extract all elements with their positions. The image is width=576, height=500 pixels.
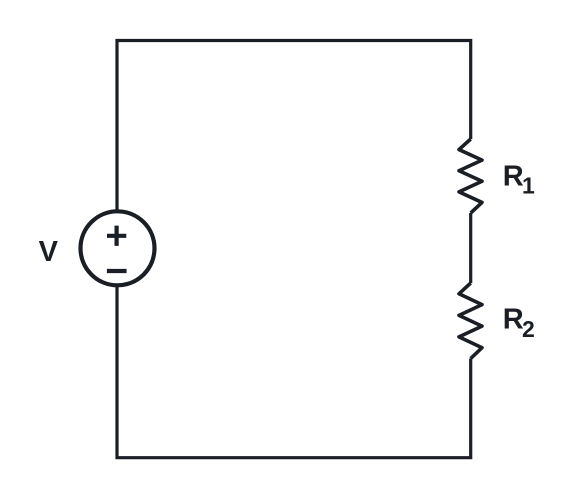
svg-text:R2: R2 [503, 303, 535, 342]
resistor R1 (zigzag) [459, 139, 482, 213]
voltage source minus terminal symbol [107, 269, 127, 273]
resistor R2 (zigzag) [459, 283, 482, 359]
wire: between R1 bottom and R2 top [469, 213, 472, 283]
svg-text:R1: R1 [503, 161, 535, 199]
wire: bottom loop from R2 down, across bottom, up to source (-) terminal [117, 287, 471, 458]
svg-text:V: V [39, 236, 59, 268]
voltage source V (circle) [81, 211, 155, 285]
voltage source plus terminal symbol [107, 226, 126, 246]
wire: top loop from source (+) terminal up, across top, down to R1 [117, 41, 471, 212]
